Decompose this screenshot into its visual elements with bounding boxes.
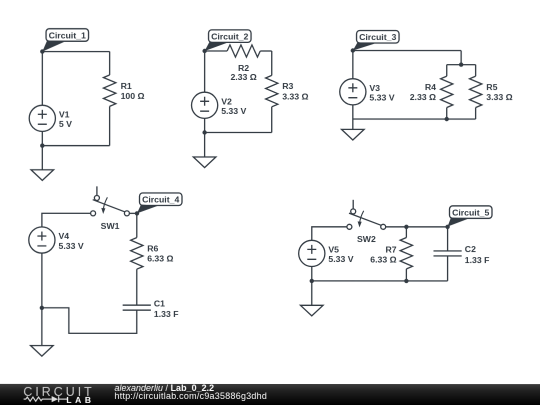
wire <box>42 308 137 334</box>
wire <box>386 226 448 228</box>
svg-text:R7: R7 <box>385 244 396 254</box>
wire <box>41 253 43 308</box>
svg-text:R5: R5 <box>486 82 497 92</box>
wire <box>352 119 354 129</box>
svg-text:1.33 F: 1.33 F <box>154 309 179 319</box>
circuit 3 group <box>340 31 513 141</box>
resistor R4 <box>441 76 453 107</box>
svg-text:SW1: SW1 <box>101 221 120 231</box>
voltage source V5 <box>299 240 325 266</box>
svg-text:SW2: SW2 <box>357 234 376 244</box>
wire <box>136 213 138 237</box>
flag label Circuit_4 <box>137 193 182 213</box>
wire <box>447 256 449 281</box>
node circuit 2 top node <box>202 49 206 53</box>
wire <box>129 212 137 214</box>
node circuit 5 bottom junction <box>310 279 314 283</box>
wire <box>136 269 138 305</box>
resistor R7 <box>400 238 412 269</box>
flag label Circuit_1 <box>42 29 88 52</box>
resistor R6 <box>131 238 143 270</box>
svg-text:5.33 V: 5.33 V <box>328 254 353 264</box>
svg-text:5.33 V: 5.33 V <box>221 106 246 116</box>
svg-text:5.33 V: 5.33 V <box>58 241 83 251</box>
switch SW1 <box>91 186 130 216</box>
node circuit 4 top node <box>135 211 139 215</box>
circuit 1 group <box>29 29 144 181</box>
svg-text:V1: V1 <box>59 109 70 119</box>
wire <box>271 107 273 133</box>
wire <box>447 227 449 251</box>
svg-text:Circuit_1: Circuit_1 <box>49 30 86 40</box>
capacitor C2 <box>433 251 461 256</box>
svg-text:3.33 Ω: 3.33 Ω <box>282 91 308 101</box>
svg-text:Circuit_3: Circuit_3 <box>359 32 396 42</box>
wire <box>405 227 407 238</box>
svg-text:2.33 Ω: 2.33 Ω <box>410 92 436 102</box>
svg-text:V3: V3 <box>369 83 380 93</box>
wire <box>204 51 206 92</box>
wire <box>405 269 407 281</box>
wire <box>42 145 109 147</box>
wire <box>109 106 111 145</box>
svg-text:5 V: 5 V <box>59 119 72 129</box>
ground <box>300 305 323 316</box>
wire <box>41 146 43 170</box>
wire <box>475 108 477 119</box>
wire <box>352 105 354 119</box>
flag label Circuit_5 <box>448 206 492 227</box>
wire <box>312 280 448 282</box>
node R7 top junction <box>404 225 408 229</box>
svg-text:C2: C2 <box>465 244 476 254</box>
svg-text:C1: C1 <box>154 298 165 308</box>
ground <box>342 129 365 140</box>
flag label Circuit_2 <box>205 30 251 51</box>
resistor R3 <box>266 75 278 106</box>
wire <box>204 132 206 157</box>
voltage source V2 <box>192 92 218 118</box>
voltage source V4 <box>29 227 55 253</box>
svg-text:V4: V4 <box>58 231 69 241</box>
svg-text:2.33 Ω: 2.33 Ω <box>230 72 256 82</box>
wire <box>109 52 111 75</box>
resistor R1 <box>103 75 115 106</box>
svg-text:1.33 F: 1.33 F <box>465 255 490 265</box>
node circuit 1 bottom junction <box>40 143 44 147</box>
wire <box>446 65 448 77</box>
svg-text:Circuit_4: Circuit_4 <box>142 195 179 205</box>
capacitor C1 <box>123 305 151 310</box>
wire <box>204 118 206 132</box>
node parallel top junction <box>459 62 463 66</box>
wire <box>271 51 273 75</box>
wire <box>205 131 272 133</box>
wire <box>41 52 43 106</box>
svg-text:100 Ω: 100 Ω <box>121 91 145 101</box>
wire <box>42 51 109 53</box>
CircuitLab logo text CIRCUIT <box>23 387 94 398</box>
ground <box>193 157 216 168</box>
wire <box>260 50 272 52</box>
wire <box>311 267 313 281</box>
svg-text:Circuit_5: Circuit_5 <box>452 207 489 217</box>
resistor R5 <box>470 76 482 107</box>
svg-text:Circuit_2: Circuit_2 <box>211 31 248 41</box>
svg-text:5.33 V: 5.33 V <box>369 93 394 103</box>
footer bar <box>0 384 540 405</box>
ground <box>31 346 54 357</box>
wire <box>447 64 476 66</box>
resistor R2 <box>227 45 260 57</box>
CircuitLab logo resistor + diode glyph <box>0 384 110 405</box>
wire <box>353 50 461 52</box>
svg-text:3.33 Ω: 3.33 Ω <box>486 92 512 102</box>
wire <box>42 213 91 227</box>
svg-text:V5: V5 <box>328 244 339 254</box>
circuit 5 group <box>299 200 492 316</box>
node circuit 4 bottom junction <box>40 306 44 310</box>
wire <box>353 118 476 120</box>
wire <box>446 108 448 120</box>
svg-text:R4: R4 <box>425 82 436 92</box>
wire <box>475 65 477 77</box>
node circuit 5 top node <box>445 225 449 229</box>
node parallel bottom junction <box>445 117 449 121</box>
node circuit 2 bottom junction <box>202 130 206 134</box>
node circuit 1 top node <box>40 49 44 53</box>
switch SW2 <box>347 200 386 230</box>
node circuit 3 top node <box>351 48 355 52</box>
voltage source V1 <box>29 105 55 131</box>
wire <box>312 227 347 241</box>
wire <box>460 51 462 65</box>
voltage source V3 <box>340 79 366 105</box>
circuit 4 group <box>29 186 182 356</box>
ground <box>31 170 54 181</box>
circuit 2 group <box>192 30 309 168</box>
wire <box>41 308 43 346</box>
flag label Circuit_3 <box>353 31 399 51</box>
CircuitLab logo text LAB <box>66 395 94 403</box>
wire <box>352 51 354 79</box>
svg-text:R3: R3 <box>282 81 293 91</box>
wire <box>311 281 313 305</box>
footer user / document text <box>114 384 267 401</box>
svg-text:R6: R6 <box>147 243 158 253</box>
svg-text:V2: V2 <box>221 96 232 106</box>
svg-text:R1: R1 <box>121 81 132 91</box>
svg-text:6.33 Ω: 6.33 Ω <box>147 254 173 264</box>
svg-text:6.33 Ω: 6.33 Ω <box>370 255 396 265</box>
wire <box>41 131 43 145</box>
node R7 bottom junction <box>404 279 408 283</box>
wire <box>205 50 228 52</box>
